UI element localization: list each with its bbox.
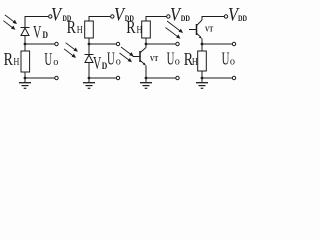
wire VD1 to node A1 <box>24 36 26 52</box>
wire top rail C2 <box>89 17 110 22</box>
svg-text:V: V <box>33 22 41 42</box>
phototransistor VT4 <box>189 20 202 39</box>
svg-text:VT: VT <box>150 55 159 63</box>
resistor RH2 <box>85 21 94 38</box>
node Uo- terminal C1 <box>55 76 58 79</box>
wire RH1 to ground node <box>24 72 26 78</box>
svg-text:o: o <box>230 55 236 67</box>
light arrows into VT3 <box>120 47 134 62</box>
node VDD terminal C3 <box>167 15 170 18</box>
svg-text:VT: VT <box>205 26 214 34</box>
wire RH3 to node A3 <box>145 38 147 48</box>
svg-text:U: U <box>222 48 230 68</box>
resistor RH1 <box>21 51 30 72</box>
node Uo- terminal C3 <box>176 76 179 79</box>
svg-text:H: H <box>13 57 19 68</box>
svg-text:U: U <box>167 48 175 68</box>
wire RH2 to node A2 <box>88 38 90 55</box>
phototransistor VT3 <box>133 48 147 66</box>
svg-text:D: D <box>43 30 49 40</box>
node Uo+ terminal C3 <box>176 42 179 45</box>
photodiode VD2 <box>85 55 94 63</box>
svg-text:DD: DD <box>181 14 190 23</box>
svg-text:R: R <box>4 49 13 69</box>
svg-text:H: H <box>192 57 198 68</box>
wire top rail C3 <box>146 17 166 22</box>
svg-text:o: o <box>53 56 59 68</box>
node Uo+ terminal C1 <box>55 42 58 45</box>
ground C3 <box>140 78 152 88</box>
wire top rail C4 <box>202 17 224 21</box>
wire output top C4 <box>202 43 232 45</box>
svg-text:R: R <box>126 17 135 37</box>
ground C1 <box>19 78 31 88</box>
wire output bottom C4 <box>202 77 232 79</box>
wire top rail C1 <box>25 17 48 28</box>
wire output bottom C2 <box>89 77 116 79</box>
wire VD2 to node B2 <box>88 63 90 79</box>
node Uo+ terminal C4 <box>232 42 235 45</box>
node Uo- terminal C4 <box>232 76 235 79</box>
node B1 junction <box>24 77 27 80</box>
svg-text:U: U <box>107 48 115 68</box>
light arrows into VD1 <box>3 15 17 30</box>
node VDD terminal C4 <box>224 15 227 18</box>
node A3 junction <box>145 43 148 46</box>
node B3 junction <box>145 77 148 80</box>
svg-text:DD: DD <box>238 14 247 23</box>
node B4 junction <box>201 77 204 80</box>
svg-text:V: V <box>51 5 63 26</box>
node VDD terminal C2 <box>111 15 114 18</box>
svg-text:U: U <box>44 49 52 69</box>
node A4 junction <box>201 43 204 46</box>
wire emitter to node A4 <box>201 39 203 52</box>
wire emitter to node B3 <box>145 66 147 79</box>
svg-text:o: o <box>116 55 122 67</box>
svg-text:V: V <box>93 53 101 73</box>
ground C4 <box>196 78 208 88</box>
light arrows into VT4 <box>166 21 184 39</box>
svg-text:o: o <box>175 55 181 67</box>
wire output top C1 <box>25 43 55 45</box>
svg-text:H: H <box>77 25 83 36</box>
node A1 junction <box>24 43 27 46</box>
node VDD terminal C1 <box>49 15 52 18</box>
resistor RH4 <box>198 51 207 71</box>
photodiode VD1 <box>21 28 30 36</box>
wire output bottom C1 <box>25 77 55 79</box>
node Uo- terminal C2 <box>116 76 119 79</box>
node B2 junction <box>88 77 91 80</box>
svg-text:H: H <box>137 25 143 36</box>
light arrows into VD2 <box>64 43 78 58</box>
node A2 junction <box>88 43 91 46</box>
wire RH4 to node B4 <box>201 71 203 78</box>
svg-text:R: R <box>67 17 76 37</box>
wire output bottom C3 <box>146 77 176 79</box>
wire output top C3 <box>146 43 176 45</box>
node Uo+ terminal C2 <box>116 42 119 45</box>
resistor RH3 <box>142 21 151 38</box>
wire output top C2 <box>89 43 116 45</box>
ground C2 <box>83 78 95 88</box>
